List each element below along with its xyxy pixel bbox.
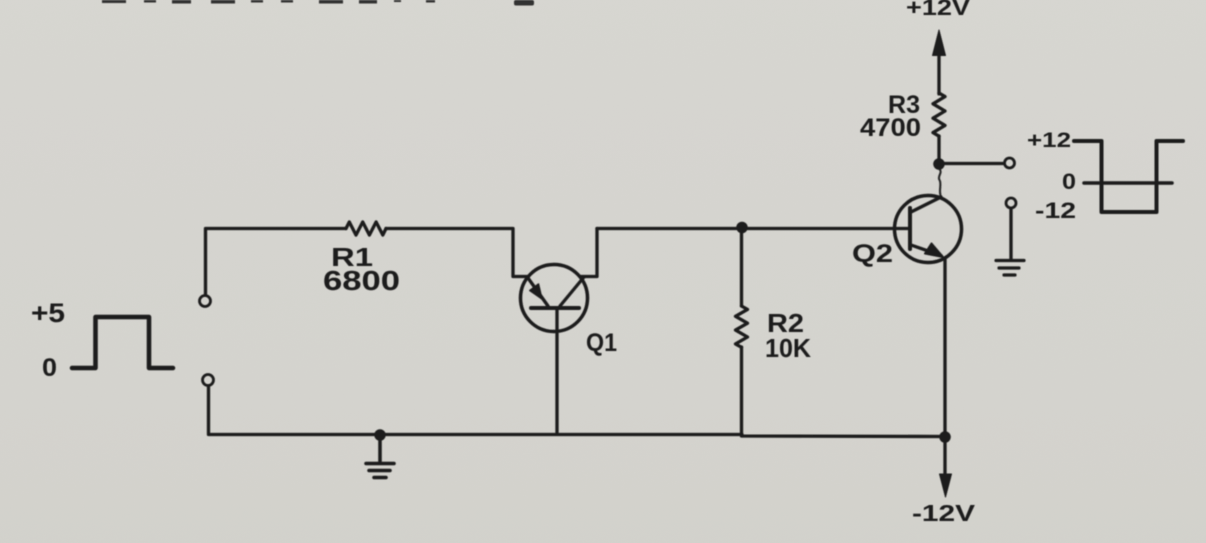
input terminal lower (open circle): [203, 375, 214, 386]
Q2 collector line: [911, 197, 941, 212]
input terminal upper (open circle): [200, 296, 211, 307]
node: R2 junction dot: [737, 223, 747, 233]
node: ground junction dot: [375, 430, 385, 440]
output terminal (open circle): [1005, 158, 1015, 168]
resistor R3 (vertical zigzag): [933, 93, 945, 136]
wire junction down to R2: [740, 228, 743, 306]
svg-text:6800: 6800: [323, 265, 400, 296]
wire R2 bottom: [742, 347, 946, 437]
svg-text:0: 0: [42, 354, 57, 382]
wire Q1 collector up to horizontal: [580, 229, 597, 277]
svg-text:Q1: Q1: [586, 329, 617, 357]
Q1 base wire down: [555, 310, 558, 434]
svg-text:0: 0: [1062, 169, 1076, 194]
+12V supply arrow: [937, 48, 940, 94]
wire R3 bottom to collector node: [937, 136, 940, 161]
Q1 emitter line: [528, 278, 548, 306]
Q2 base bar: [908, 208, 912, 249]
svg-text:Q2: Q2: [852, 240, 893, 268]
Q2 emitter arrow: [925, 244, 943, 258]
resistor R1 (horizontal zigzag): [346, 222, 386, 235]
Q1 emitter arrow: [530, 284, 542, 299]
output waveform zero line: [1084, 181, 1172, 185]
wire Q1 collector to Q2 base (long horizontal): [597, 227, 908, 230]
cut-off title text at top edge: [102, 0, 534, 6]
transistor Q2 (NPN, circle): [895, 196, 962, 263]
-12V supply arrow: [943, 440, 946, 478]
wire input top (left vertical + horizontal to R1): [206, 229, 347, 296]
svg-text:-12V: -12V: [912, 500, 976, 526]
resistor R2 (vertical zigzag): [736, 306, 748, 347]
ground symbol (right): [996, 261, 1024, 276]
output pulse waveform: [1074, 141, 1183, 212]
node: collector junction dot: [934, 159, 944, 169]
svg-text:4700: 4700: [860, 114, 921, 142]
ground reference terminal (open circle): [1006, 198, 1016, 208]
wire node to output terminal: [944, 162, 1003, 165]
input pulse waveform: [72, 317, 173, 368]
svg-text:-12: -12: [1035, 198, 1076, 223]
node: emitter junction dot: [940, 432, 950, 442]
wire terminal to ground: [1009, 209, 1012, 259]
Q1 collector line: [560, 277, 584, 306]
wire lower terminal to bottom rail: [209, 386, 743, 435]
wire Q2 emitter down: [943, 258, 946, 434]
Q2 emitter line: [911, 245, 941, 256]
svg-text:+5: +5: [31, 298, 65, 328]
svg-text:+12: +12: [1027, 129, 1071, 152]
svg-text:10K: 10K: [765, 333, 811, 363]
wire R1 to Q1 emitter: [386, 229, 528, 277]
transistor Q1 (PNP, circle): [521, 265, 588, 332]
svg-text:+12V: +12V: [906, 0, 970, 20]
ground symbol (center): [366, 438, 394, 478]
faint wire node to Q2 collector: [939, 169, 941, 196]
Q1 base bar: [531, 306, 579, 310]
